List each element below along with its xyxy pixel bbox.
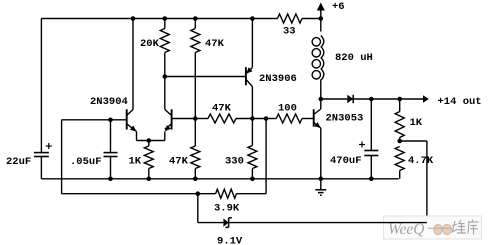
wire 47K h to 330 node — [236, 118, 266, 120]
wire diode to 470uF — [353, 98, 371, 100]
svg-text:22uF: 22uF — [6, 156, 31, 168]
ground — [315, 179, 326, 195]
node rail 330 — [250, 177, 255, 182]
svg-text:3.9K: 3.9K — [214, 203, 240, 215]
wire left rail down to 22uF — [40, 19, 42, 153]
svg-text:4.7K: 4.7K — [408, 155, 434, 167]
resistor 1K — [144, 146, 153, 169]
node rail 470uF — [369, 177, 374, 182]
wire 20K to Q2 collector node — [164, 53, 166, 77]
wire 1K to divider node — [399, 138, 401, 142]
svg-text:+14 out: +14 out — [438, 96, 482, 108]
transistor Q1 2N3904 — [127, 109, 137, 131]
supply +6 arrow — [317, 3, 325, 19]
wire Q4 collector up — [320, 99, 322, 109]
resistor 330 — [248, 146, 257, 169]
resistor 20K — [160, 29, 169, 53]
label 330 — [225, 156, 244, 168]
label 100 — [278, 103, 297, 115]
inductor L1 820uH — [312, 19, 324, 100]
svg-text:2N3906: 2N3906 — [259, 73, 297, 85]
label 1K right — [410, 117, 423, 129]
wire Q2 collector node to Q3 base — [165, 76, 246, 78]
wire 1K top lead — [399, 99, 401, 112]
diode D1 — [347, 95, 353, 103]
wire out to arrow — [400, 98, 423, 100]
transistor Q4 2N3053 — [314, 109, 321, 128]
resistor 47K bottom — [191, 146, 200, 169]
watermark WeeQoo — [384, 216, 482, 239]
label 20K — [140, 38, 160, 50]
svg-text:47K: 47K — [169, 156, 189, 168]
label 47K bottom — [169, 156, 189, 168]
node rail ground — [319, 177, 324, 182]
node 3.9K zener tap — [196, 191, 201, 196]
wire .05uF top — [110, 120, 112, 153]
svg-text:470uF: 470uF — [330, 155, 362, 167]
wire tap down to zener line — [426, 141, 428, 223]
svg-text:.05uF: .05uF — [70, 156, 102, 168]
wire 4.7K bottom — [399, 171, 401, 179]
resistor 1K right — [395, 112, 404, 138]
node Q1 base / .05uF — [108, 118, 113, 123]
label 3.9K — [214, 203, 240, 215]
label 22uF — [6, 156, 31, 168]
label +14 out — [438, 96, 482, 108]
node feedback tap — [264, 116, 269, 121]
node emitters / 1K — [147, 138, 152, 143]
label 2N3904 — [90, 96, 128, 108]
wire 47K to mid node — [194, 53, 196, 119]
wire zener to right riser — [229, 222, 427, 224]
svg-text:47K: 47K — [212, 103, 232, 115]
wire Q1 emitter down — [136, 132, 138, 141]
svg-text:+6: +6 — [332, 1, 345, 13]
wire zener drop — [197, 194, 199, 223]
label 820 uH — [335, 52, 373, 64]
wire out to 1K — [371, 98, 399, 100]
svg-text:9.1V: 9.1V — [217, 236, 243, 245]
wire Q2 collector — [164, 77, 166, 110]
wire 22uF to ground rail — [40, 157, 42, 179]
label 470uF — [330, 155, 362, 167]
node top rail 20K — [163, 16, 168, 21]
node inductor / Q4 collector / diode — [319, 97, 324, 102]
wire Q3 collector down — [251, 87, 253, 119]
node top rail / +6 — [319, 16, 324, 21]
wire emitter rail — [137, 140, 165, 142]
svg-text:100: 100 — [278, 103, 297, 115]
wire .05uF bottom — [110, 157, 112, 179]
capacitor C 22uF — [34, 143, 52, 157]
wire feedback to 3.9K — [236, 193, 266, 195]
svg-text:47K: 47K — [205, 38, 225, 50]
label 1K — [129, 156, 142, 168]
resistor 3.9K — [216, 189, 237, 198]
capacitor 470uF — [359, 99, 378, 179]
svg-text:WeeQ: WeeQ — [388, 221, 424, 238]
label 9.1V — [217, 236, 243, 245]
svg-text:820 uH: 820 uH — [335, 52, 373, 64]
wire feedback drop — [265, 119, 267, 194]
wire Q4 emitter down — [320, 128, 322, 179]
node out 470uF — [369, 97, 374, 102]
node 20K / Q2 collector / Q3 base — [163, 74, 168, 79]
wire 1K top — [148, 141, 150, 147]
wire tap to 100 — [266, 118, 276, 120]
wire out to diode — [321, 98, 348, 100]
wire Q1 base — [62, 119, 127, 121]
wire Q3 emitter up — [251, 19, 253, 68]
wire 47K mid down — [194, 119, 196, 147]
wire Q2 base — [172, 118, 196, 120]
node top rail Q1 collector — [131, 16, 136, 21]
svg-text:330: 330 — [225, 156, 244, 168]
node top rail Q3 emitter — [250, 16, 255, 21]
label .05uF — [70, 156, 102, 168]
capacitor .05uF — [104, 153, 118, 157]
node rail 47K — [193, 177, 198, 182]
wire ground rail — [41, 178, 398, 180]
svg-text:2N3904: 2N3904 — [90, 96, 128, 108]
svg-text:33: 33 — [283, 26, 296, 38]
label 2N3053 — [326, 113, 364, 125]
wire top rail left segment — [41, 18, 277, 20]
node rail .05uF — [108, 177, 113, 182]
transistor Q3 2N3906 — [246, 67, 253, 86]
label 2N3906 — [259, 73, 297, 85]
label 33 — [283, 26, 296, 38]
wire divider tap right — [400, 140, 427, 142]
zener diode 9.1V — [223, 218, 231, 228]
label 47K top — [205, 38, 225, 50]
label 4.7K — [408, 155, 434, 167]
resistor 47K top — [191, 29, 200, 53]
wire 330 top — [251, 119, 253, 146]
resistor 100 — [276, 114, 302, 123]
wire 47K bottom to rail — [194, 169, 196, 179]
label +6 — [332, 1, 345, 13]
wire Q1 collector to rail — [132, 19, 134, 110]
wire left feedback riser — [61, 120, 63, 194]
resistor 33 — [278, 14, 303, 23]
output +14 arrow — [423, 95, 429, 103]
wire top rail right segment — [302, 18, 321, 20]
svg-text:20K: 20K — [140, 38, 160, 50]
resistor 4.7K — [395, 147, 404, 171]
wire 100 to Q4 base — [302, 118, 314, 120]
wire mid node to 47K h — [195, 118, 208, 120]
wire 3.9K to corner — [62, 193, 216, 195]
wire rail to 20K — [164, 19, 166, 29]
wire rail to 47K — [194, 19, 196, 29]
node 330 / Q3 collector — [250, 116, 255, 121]
transistor Q2 2N3904 — [165, 109, 172, 131]
wire 1K bottom — [148, 169, 150, 179]
svg-text:1K: 1K — [410, 117, 423, 129]
node divider 1K/4.7K — [397, 139, 402, 144]
node out 1K — [397, 97, 402, 102]
node top rail 47K — [193, 16, 198, 21]
resistor 47K horizontal — [208, 114, 236, 123]
wire 330 bottom — [251, 169, 253, 179]
node 47K mid — [193, 116, 198, 121]
svg-text:1K: 1K — [129, 156, 142, 168]
label 47K horizontal — [212, 103, 232, 115]
wire Q2 emitter down — [164, 132, 166, 141]
svg-text:2N3053: 2N3053 — [326, 113, 364, 125]
wire zener left lead — [198, 222, 224, 224]
node rail 1K — [147, 177, 152, 182]
